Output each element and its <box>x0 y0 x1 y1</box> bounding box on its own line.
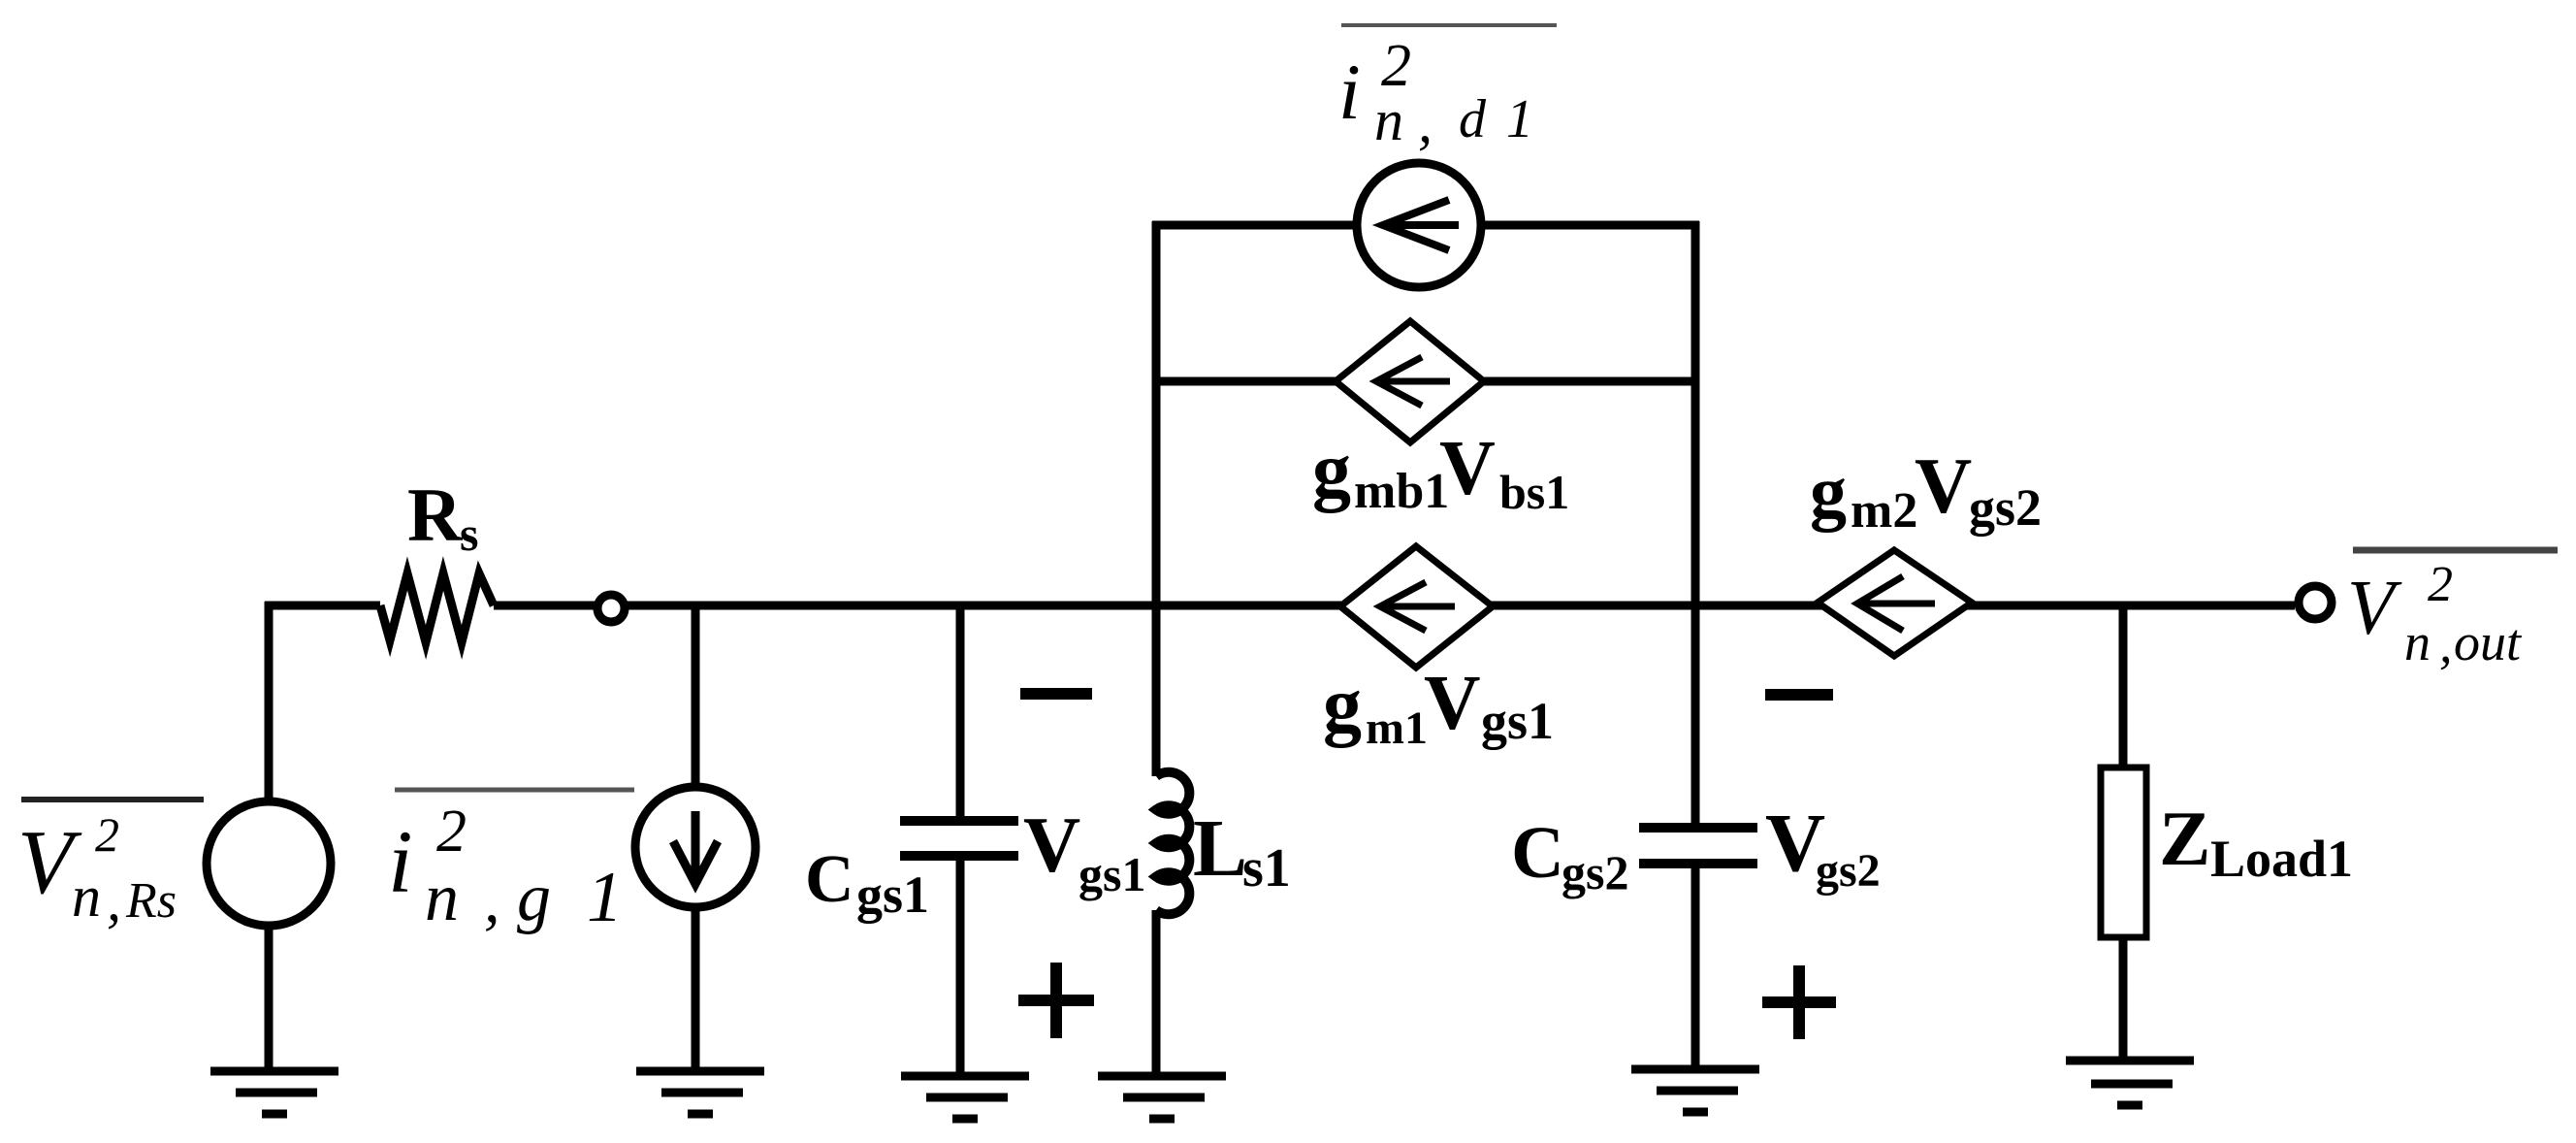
svg-text:V: V <box>1915 441 1972 530</box>
svg-text:mb1: mb1 <box>1354 464 1449 519</box>
svg-text:m2: m2 <box>1851 483 1917 539</box>
svg-text:n: n <box>72 865 101 929</box>
svg-text:g: g <box>1312 428 1351 513</box>
svg-text:g: g <box>517 861 551 935</box>
svg-text:i: i <box>388 812 413 911</box>
svg-text:s: s <box>460 506 478 561</box>
svg-text:g: g <box>1323 663 1362 748</box>
svg-text:2: 2 <box>2428 557 2453 612</box>
svg-text:2: 2 <box>436 799 467 865</box>
svg-text:out: out <box>2454 613 2523 671</box>
svg-text:1: 1 <box>587 858 623 937</box>
svg-text:C: C <box>1511 812 1564 894</box>
svg-text:g: g <box>1810 451 1847 533</box>
svg-text:n: n <box>2404 613 2431 671</box>
svg-text:V: V <box>2347 566 2402 651</box>
svg-text:,: , <box>107 868 121 932</box>
svg-text:i: i <box>1338 48 1361 136</box>
svg-text:gs1: gs1 <box>1079 847 1145 901</box>
svg-text:n: n <box>425 861 459 935</box>
svg-text:d: d <box>1459 89 1487 149</box>
svg-text:V: V <box>1424 659 1481 746</box>
svg-text:gs1: gs1 <box>1481 692 1554 750</box>
svg-text:L: L <box>1193 803 1247 894</box>
svg-text:V: V <box>1439 426 1496 511</box>
svg-text:gs2: gs2 <box>1816 845 1881 897</box>
svg-text:1: 1 <box>1506 89 1533 149</box>
svg-text:Z: Z <box>2159 797 2210 882</box>
svg-text:gs2: gs2 <box>1562 845 1628 899</box>
svg-text:C: C <box>805 842 854 917</box>
svg-text:gs1: gs1 <box>856 865 929 924</box>
svg-text:gs2: gs2 <box>1969 478 2042 537</box>
svg-text:bs1: bs1 <box>1499 465 1569 519</box>
svg-text:m1: m1 <box>1366 702 1428 754</box>
svg-text:R: R <box>407 473 464 557</box>
svg-text:s1: s1 <box>1242 838 1291 898</box>
svg-text:2: 2 <box>95 807 119 862</box>
svg-text:V: V <box>1023 800 1080 889</box>
svg-text:,: , <box>484 865 500 936</box>
svg-text:n: n <box>1374 88 1403 152</box>
svg-text:Rs: Rs <box>125 873 177 929</box>
svg-text:Load1: Load1 <box>2210 830 2353 888</box>
svg-text:,: , <box>2439 615 2453 673</box>
svg-text:,: , <box>1418 90 1433 154</box>
